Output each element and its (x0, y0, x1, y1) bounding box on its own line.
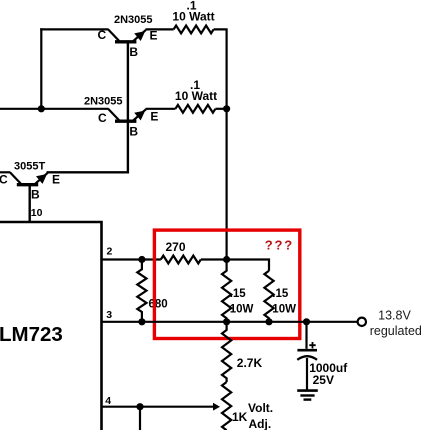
ground symbol (297, 391, 318, 400)
wire left vertical Q1-collector to row2 (40, 28, 42, 110)
svg-text:10 Watt: 10 Watt (172, 10, 214, 24)
wire 270 to main vertical (201, 258, 227, 260)
svg-text:1K: 1K (232, 410, 248, 424)
resistor 270 (161, 256, 201, 264)
svg-text:25V: 25V (313, 373, 334, 387)
transistor Q1 2N3055 (108, 29, 146, 41)
svg-text:C: C (98, 28, 107, 42)
svg-text:2N3055: 2N3055 (114, 14, 153, 26)
wire rail to second .15 resistor (227, 260, 269, 271)
junction dot .15 second bottom (265, 318, 272, 325)
svg-text:E: E (52, 173, 60, 187)
svg-text:10W: 10W (272, 303, 296, 315)
wire pin 2 to 270 resistor (102, 258, 161, 260)
junction dot capacitor tap (303, 318, 310, 325)
svg-text:C: C (0, 173, 8, 187)
transistor Q2 2N3055 (108, 109, 146, 121)
wire collector feed Q1 (40, 28, 108, 30)
wire capacitor to ground (306, 358, 308, 390)
capacitor C1 plus sign (309, 342, 315, 348)
capacitor C1 top plate (297, 349, 317, 352)
svg-text:B: B (31, 188, 40, 202)
svg-text:B: B (129, 125, 138, 139)
wiper arrow (1K pot) (213, 403, 220, 411)
svg-text:2: 2 (107, 246, 113, 258)
resistor .15 10W (second) (264, 271, 273, 322)
potentiometer 1K (222, 382, 231, 430)
svg-text:Adj.: Adj. (249, 417, 272, 430)
wire base Q2 down and left to Q3 emitter (47, 122, 128, 173)
wire R2 to main vertical (215, 108, 226, 110)
junction dot row2 right (223, 105, 230, 112)
wire Q1 emitter to R1 (146, 28, 174, 30)
junction dot row2 left (38, 105, 45, 112)
wire pin 4 to wiper (102, 406, 214, 408)
svg-text:???: ??? (265, 238, 294, 253)
wire Q2 emitter to R2 (146, 108, 176, 110)
highlight box (red) (154, 230, 299, 338)
wire pin 3 output rail (102, 321, 358, 323)
resistor 2.7K (222, 322, 231, 382)
svg-text:.15: .15 (230, 288, 247, 300)
svg-text:10 Watt: 10 Watt (175, 89, 217, 103)
junction dot pin4 (136, 403, 143, 410)
svg-text:C: C (98, 111, 107, 125)
output terminal circle (358, 318, 366, 326)
transistor Q3 3055T (10, 172, 48, 184)
svg-text:Volt.: Volt. (248, 401, 273, 415)
junction dot 680 bottom (138, 318, 145, 325)
svg-text:LM723: LM723 (0, 323, 63, 346)
svg-text:4: 4 (105, 395, 111, 407)
svg-text:270: 270 (166, 240, 186, 254)
wire R1 to main vertical (214, 29, 227, 260)
resistor 680 (137, 260, 146, 322)
svg-text:2N3055: 2N3055 (84, 96, 123, 108)
svg-text:2.7K: 2.7K (237, 356, 263, 370)
junction dot .15 first bottom (223, 318, 230, 325)
wire pin4 branch down (139, 407, 141, 430)
wire collector feed Q3 (0, 171, 10, 173)
wire base Q1 to Q2 (127, 42, 129, 122)
svg-text:3: 3 (106, 309, 112, 321)
wire base Q3 to LM723 pin 10 (29, 185, 31, 222)
resistor R2 .1 10 Watt (175, 105, 215, 113)
svg-text:10: 10 (31, 207, 43, 219)
svg-text:13.8V: 13.8V (378, 309, 411, 323)
svg-text:10W: 10W (230, 303, 254, 315)
wire row2 left horizontal (0, 108, 109, 110)
svg-text:E: E (150, 29, 158, 43)
capacitor C1 bottom plate (curved) (297, 356, 317, 360)
IC U1 LM723 box outline (0, 222, 102, 430)
svg-text:B: B (129, 45, 138, 59)
resistor R1 .1 10 Watt (174, 26, 214, 34)
resistor .15 10W (first) (222, 261, 231, 322)
junction dot node A (main vertical / pin2 rail) (223, 256, 230, 263)
junction dot pin2/680 (138, 256, 145, 263)
svg-text:3055T: 3055T (14, 161, 45, 173)
svg-text:.15: .15 (272, 288, 289, 300)
svg-text:regulated: regulated (370, 324, 422, 338)
svg-text:680: 680 (149, 299, 168, 311)
svg-text:E: E (150, 110, 158, 124)
wire output rail to capacitor (305, 322, 307, 349)
